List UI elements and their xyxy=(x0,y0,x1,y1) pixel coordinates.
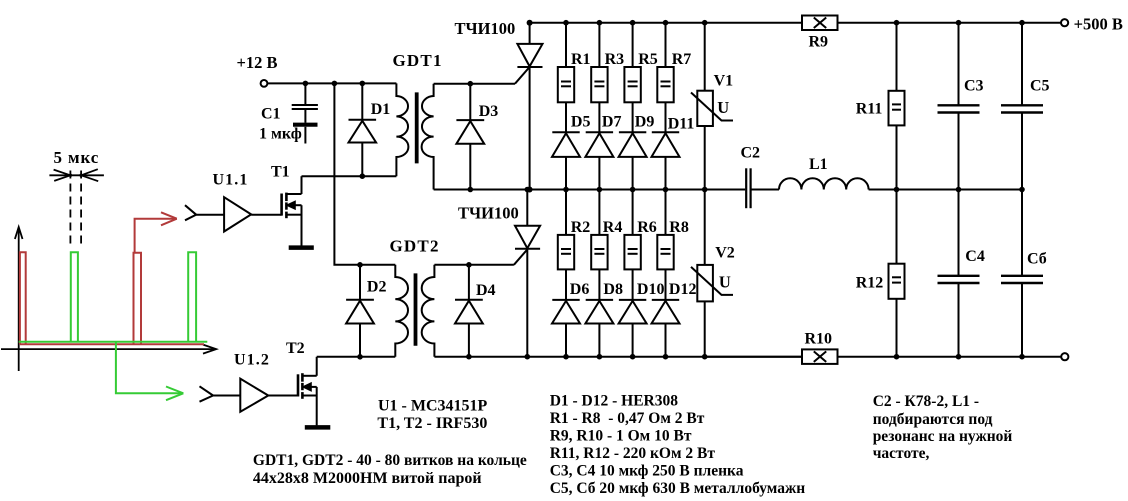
svg-text:U1 - MC34151P: U1 - MC34151P xyxy=(378,398,488,415)
node bottom rail D10 xyxy=(630,354,636,360)
wire middle rail right xyxy=(869,189,1022,191)
ground T2 source xyxy=(305,425,331,430)
node mid rail end C5 xyxy=(1019,187,1025,193)
svg-text:R11, R12 - 220 кОм 2 Вт: R11, R12 - 220 кОм 2 Вт xyxy=(550,445,716,462)
svg-text:D1 - D12 - HER308: D1 - D12 - HER308 xyxy=(550,393,679,410)
svg-text:R11: R11 xyxy=(856,100,883,117)
green trace baseline xyxy=(19,341,208,343)
capacitor C5 xyxy=(1001,23,1043,190)
red pulse 2 xyxy=(134,253,142,344)
diode D6 xyxy=(552,300,580,357)
green takeoff arrow to U1.2 xyxy=(116,342,183,400)
transformer GDT2 primary winding xyxy=(395,265,408,357)
svg-text:GDT1, GDT2 - 40 - 80 витков на: GDT1, GDT2 - 40 - 80 витков на кольце xyxy=(253,452,527,469)
dimension line 5 мкс xyxy=(49,169,104,181)
svg-text:R8: R8 xyxy=(669,219,689,236)
svg-text:R1: R1 xyxy=(571,51,591,68)
svg-text:C2: C2 xyxy=(741,144,761,161)
diode D9 xyxy=(619,132,647,189)
wire bottom rail R10 left xyxy=(705,356,802,358)
ground T1 source xyxy=(289,245,314,250)
capacitor C1 xyxy=(292,83,318,143)
node mid rail thyristor cathode xyxy=(527,187,533,193)
svg-text:частоте,: частоте, xyxy=(873,445,930,462)
transformer GDT2 secondary winding xyxy=(422,265,435,357)
varistor V1 xyxy=(691,23,733,190)
diode D11 xyxy=(652,132,680,189)
diode D5 xyxy=(552,132,580,189)
waveform horizontal axis xyxy=(1,345,216,354)
op-amp driver U1.2 xyxy=(200,379,269,412)
thyristor ТЧИ100 upper xyxy=(517,23,542,190)
svg-text:GDT1: GDT1 xyxy=(393,51,443,70)
svg-text:C5: C5 xyxy=(1030,78,1050,95)
svg-text:D8: D8 xyxy=(603,281,623,298)
node mid rail D11 xyxy=(663,187,669,193)
svg-text:C3: C3 xyxy=(964,78,984,95)
wire T1 drain up xyxy=(301,176,303,194)
node thyristor anode / top rail left end xyxy=(527,20,533,26)
transistor T1 xyxy=(282,193,302,246)
wire T1 drain to GDT1 primary xyxy=(302,175,397,177)
svg-text:ТЧИ100: ТЧИ100 xyxy=(458,204,519,223)
node bottom rail D8 xyxy=(597,354,603,360)
waveform vertical axis xyxy=(15,227,23,371)
red trace baseline xyxy=(20,343,204,345)
svg-text:R10: R10 xyxy=(805,330,833,347)
node bottom rail R12 xyxy=(894,354,900,360)
terminal +12 В xyxy=(261,80,268,87)
svg-text:T1, T2 - IRF530: T1, T2 - IRF530 xyxy=(377,415,487,432)
svg-text:R1 - R8 - 0,47 Ом 2 Вт: R1 - R8 - 0,47 Ом 2 Вт xyxy=(550,410,705,427)
svg-text:D5: D5 xyxy=(571,114,591,131)
node D2 bottom xyxy=(357,354,363,360)
wire U1.1 output to T1 gate xyxy=(251,214,281,216)
wire +12 rail xyxy=(267,82,396,84)
svg-text:D7: D7 xyxy=(602,114,622,131)
svg-text:D3: D3 xyxy=(479,103,499,120)
terminal +500 В xyxy=(1061,19,1068,26)
svg-text:D4: D4 xyxy=(476,282,496,299)
resistor R11 xyxy=(889,23,905,264)
svg-text:L1: L1 xyxy=(809,156,828,173)
green pulse 1 xyxy=(71,252,78,341)
node bottom rail D12 xyxy=(663,354,669,360)
red takeoff arrow to U1.1 xyxy=(135,212,177,253)
green pulse 2 xyxy=(188,252,196,341)
svg-text:1 мкф: 1 мкф xyxy=(259,126,302,143)
resistor R4 xyxy=(591,190,607,300)
svg-text:T2: T2 xyxy=(286,340,305,357)
wire U1.2 output to T2 gate xyxy=(268,395,298,397)
wire top rail right of R9 xyxy=(838,22,1062,24)
node mid rail D7 xyxy=(597,187,603,193)
wire C2 to L1 xyxy=(751,189,779,191)
thyristor ТЧИ100 lower xyxy=(515,190,540,357)
node D4 top xyxy=(466,262,472,268)
svg-text:R6: R6 xyxy=(637,219,657,236)
capacitor C3 xyxy=(938,23,980,190)
wire +12 down to GDT2 primary xyxy=(334,83,395,264)
wire GDT2 secondary top to thyristor gate xyxy=(434,250,527,265)
svg-text:R3: R3 xyxy=(605,51,625,68)
wire bottom rail right of R10 xyxy=(838,356,1062,358)
wire T2 drain to GDT2 primary xyxy=(317,356,396,358)
resistor R5 xyxy=(624,23,640,133)
diode D2 xyxy=(346,265,374,357)
svg-text:резонанс на нужной: резонанс на нужной xyxy=(873,428,1013,445)
node top rail C3 xyxy=(956,20,962,26)
node mid rail D5 xyxy=(563,187,569,193)
capacitor C4 xyxy=(938,190,980,357)
svg-text:C4: C4 xyxy=(965,248,985,265)
wire GDT1 secondary top to thyristor gate xyxy=(434,68,529,84)
svg-text:подбираются под: подбираются под xyxy=(873,411,993,428)
svg-text:Сб: Сб xyxy=(1027,251,1047,268)
node C1 top xyxy=(303,81,309,87)
node V1 bottom xyxy=(702,187,708,193)
svg-text:ТЧИ100: ТЧИ100 xyxy=(455,19,516,38)
fusible resistor R9 xyxy=(802,16,838,31)
svg-text:R4: R4 xyxy=(603,219,623,236)
node D1 bottom xyxy=(360,173,366,179)
red pulse 1 xyxy=(20,252,26,344)
svg-text:+12 В: +12 В xyxy=(237,53,278,72)
svg-text:R9, R10 - 1 Ом 10 Вт: R9, R10 - 1 Ом 10 Вт xyxy=(550,428,692,445)
transformer GDT1 primary winding xyxy=(396,83,408,176)
node top rail R3 xyxy=(597,20,603,26)
node top rail R7 xyxy=(663,20,669,26)
node top rail R5 xyxy=(630,20,636,26)
svg-text:44х28х8 М2000НМ витой парой: 44х28х8 М2000НМ витой парой xyxy=(253,470,482,487)
dashed marker lines xyxy=(70,171,81,248)
svg-text:С3, С4 10 мкф 250 В пленка: С3, С4 10 мкф 250 В пленка xyxy=(550,463,744,480)
transformer GDT1 core xyxy=(415,92,419,163)
svg-text:U: U xyxy=(717,98,729,117)
svg-text:D10: D10 xyxy=(637,281,665,298)
node bottom rail thyristor2 cathode xyxy=(525,354,531,360)
svg-text:5 мкс: 5 мкс xyxy=(54,148,100,167)
resistor R12 xyxy=(889,264,905,357)
resistor R7 xyxy=(657,23,673,133)
svg-text:C1: C1 xyxy=(261,106,281,123)
svg-text:D12: D12 xyxy=(669,281,697,298)
fusible resistor R10 xyxy=(802,349,838,364)
svg-text:D9: D9 xyxy=(635,114,655,131)
svg-text:С5, Сб 20 мкф 630 В металлобум: С5, Сб 20 мкф 630 В металлобумажн xyxy=(550,480,806,497)
wire middle rail left xyxy=(434,189,746,191)
node mid rail R11 xyxy=(894,187,900,193)
svg-text:U1.2: U1.2 xyxy=(234,352,270,369)
node bottom rail C4 xyxy=(956,354,962,360)
node mid rail thyristor2 anode xyxy=(525,187,531,193)
diode D1 xyxy=(349,83,377,176)
node D2 top xyxy=(357,262,363,268)
svg-text:D11: D11 xyxy=(668,116,695,133)
svg-text:+500 В: +500 В xyxy=(1074,15,1123,34)
node D1 top xyxy=(360,81,366,87)
node bottom rail D6 xyxy=(563,354,569,360)
svg-text:R12: R12 xyxy=(856,274,884,291)
node V2 bottom xyxy=(702,354,708,360)
op-amp driver U1.1 xyxy=(185,197,251,231)
svg-text:V2: V2 xyxy=(715,245,735,262)
wire bottom rail left xyxy=(434,356,802,358)
svg-text:U1.1: U1.1 xyxy=(213,172,249,189)
diode D3 xyxy=(456,84,484,190)
node mid rail C3 xyxy=(956,187,962,193)
node GDT2 feed xyxy=(332,81,338,87)
node mid rail D9 xyxy=(630,187,636,193)
svg-text:T1: T1 xyxy=(271,164,290,181)
node top rail R11 xyxy=(894,20,900,26)
capacitor C2 xyxy=(746,168,750,208)
wire T2 drain up xyxy=(316,357,318,376)
node top rail R1 xyxy=(563,20,569,26)
resistor R2 xyxy=(558,190,574,300)
svg-text:GDT2: GDT2 xyxy=(390,237,440,256)
svg-text:R2: R2 xyxy=(571,219,591,236)
node top rail C5 xyxy=(1019,20,1025,26)
svg-text:V1: V1 xyxy=(714,73,734,90)
svg-text:U: U xyxy=(719,272,731,291)
diode D12 xyxy=(652,300,680,357)
node bottom rail C6 xyxy=(1019,354,1025,360)
svg-text:D1: D1 xyxy=(371,101,391,118)
node mid rail D3 xyxy=(468,187,474,193)
node V1 top xyxy=(702,20,708,26)
node D3 top xyxy=(468,81,474,87)
transformer GDT2 core xyxy=(414,273,418,345)
svg-text:R9: R9 xyxy=(809,33,829,50)
diode D4 xyxy=(455,265,483,357)
svg-text:C2 - К78-2, L1 -: C2 - К78-2, L1 - xyxy=(873,393,979,410)
resistor R3 xyxy=(591,23,607,133)
svg-text:D2: D2 xyxy=(367,278,387,295)
terminal output bottom xyxy=(1061,353,1068,360)
resistor R1 xyxy=(558,23,574,133)
diode D10 xyxy=(619,300,647,357)
transformer GDT1 secondary winding xyxy=(422,84,434,190)
wire top rail xyxy=(530,22,802,24)
varistor V2 xyxy=(691,190,733,357)
capacitor C6 xyxy=(1001,190,1043,357)
diode D7 xyxy=(585,132,613,189)
resistor R6 xyxy=(624,190,640,300)
inductor L1 xyxy=(779,178,869,189)
resistor R8 xyxy=(657,190,673,300)
node bottom rail D4 xyxy=(466,354,472,360)
transistor T2 xyxy=(298,373,317,425)
svg-text:D6: D6 xyxy=(570,281,590,298)
diode D8 xyxy=(585,300,613,357)
svg-text:R5: R5 xyxy=(638,51,658,68)
svg-text:R7: R7 xyxy=(672,51,692,68)
